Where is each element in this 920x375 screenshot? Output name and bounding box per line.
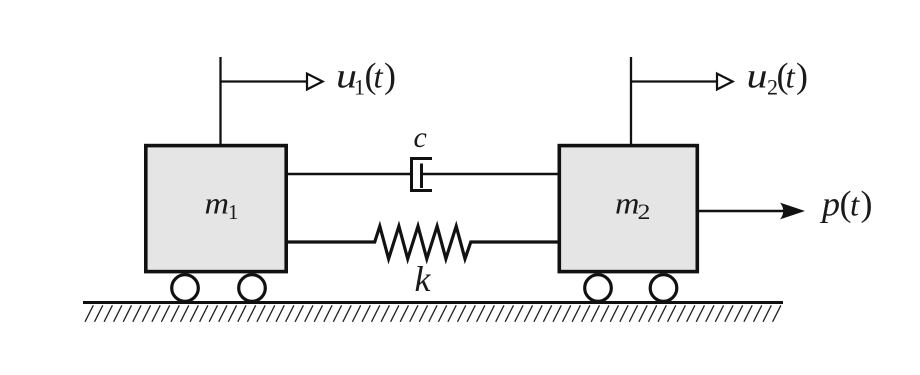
svg-text:2: 2 xyxy=(638,199,651,224)
svg-text:c: c xyxy=(414,121,427,154)
svg-text:1: 1 xyxy=(354,75,365,100)
svg-text:t: t xyxy=(374,60,384,96)
svg-text:k: k xyxy=(415,259,432,299)
svg-text:u: u xyxy=(747,57,768,96)
svg-text:t: t xyxy=(786,60,796,96)
svg-text:m: m xyxy=(615,186,640,221)
svg-text:): ) xyxy=(861,184,873,224)
svg-text:t: t xyxy=(850,188,860,224)
svg-text:1: 1 xyxy=(228,200,239,224)
svg-text:): ) xyxy=(384,56,396,96)
svg-text:m: m xyxy=(205,186,230,221)
svg-text:): ) xyxy=(796,56,808,96)
svg-text:p: p xyxy=(819,185,840,224)
